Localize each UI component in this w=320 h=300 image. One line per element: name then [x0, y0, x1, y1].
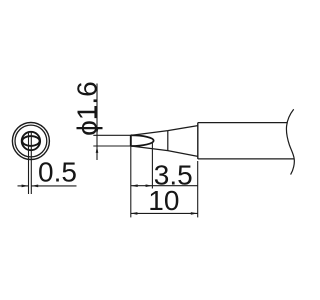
tip face bold circle	[22, 132, 40, 150]
tip chisel edge (bold)	[130, 135, 132, 146]
svg-text:ϕ1.6: ϕ1.6	[71, 81, 102, 136]
end view inner ring circle	[15, 125, 47, 157]
cone junction line	[167, 131, 169, 151]
3.5 arrow pointing right	[146, 184, 153, 187]
phi1.6 extension line bottom	[93, 145, 131, 147]
0.5 dimension line right segment	[32, 185, 77, 187]
phi1.6 arrow pointing down	[96, 128, 99, 135]
svg-text:10: 10	[148, 185, 179, 216]
3.5 dimension line	[131, 185, 198, 187]
cone top edge	[131, 126, 198, 136]
cylinder top edge	[198, 122, 288, 124]
0.5 arrow pointing left	[31, 185, 38, 188]
svg-text:0.5: 0.5	[38, 156, 77, 187]
tip extension line down	[130, 146, 132, 217]
10 arrow pointing left	[131, 212, 138, 215]
cone bottom edge	[131, 146, 198, 156]
end view outer circle	[12, 123, 49, 160]
0.5 arrow pointing right	[22, 185, 29, 188]
chisel flat boundary curve (bold)	[131, 135, 154, 146]
10 extension line right	[197, 161, 199, 217]
3.5 extension line	[151, 142, 153, 189]
cylinder bottom edge	[198, 158, 294, 160]
break line squiggle	[286, 109, 294, 174]
chisel flat bold ellipse	[22, 136, 39, 146]
10 arrow pointing right	[191, 212, 198, 215]
cylinder front edge	[197, 123, 199, 159]
chisel slot line right	[30, 132, 32, 194]
10 dimension line	[131, 212, 198, 214]
3.5 arrow pointing left	[131, 184, 138, 187]
0.5 dimension line left segment	[18, 185, 29, 187]
phi1.6 arrow pointing up	[96, 146, 99, 153]
phi1.6 dimension line	[96, 84, 98, 161]
phi1.6 extension line top	[93, 134, 131, 136]
chisel slot line left	[28, 132, 30, 194]
